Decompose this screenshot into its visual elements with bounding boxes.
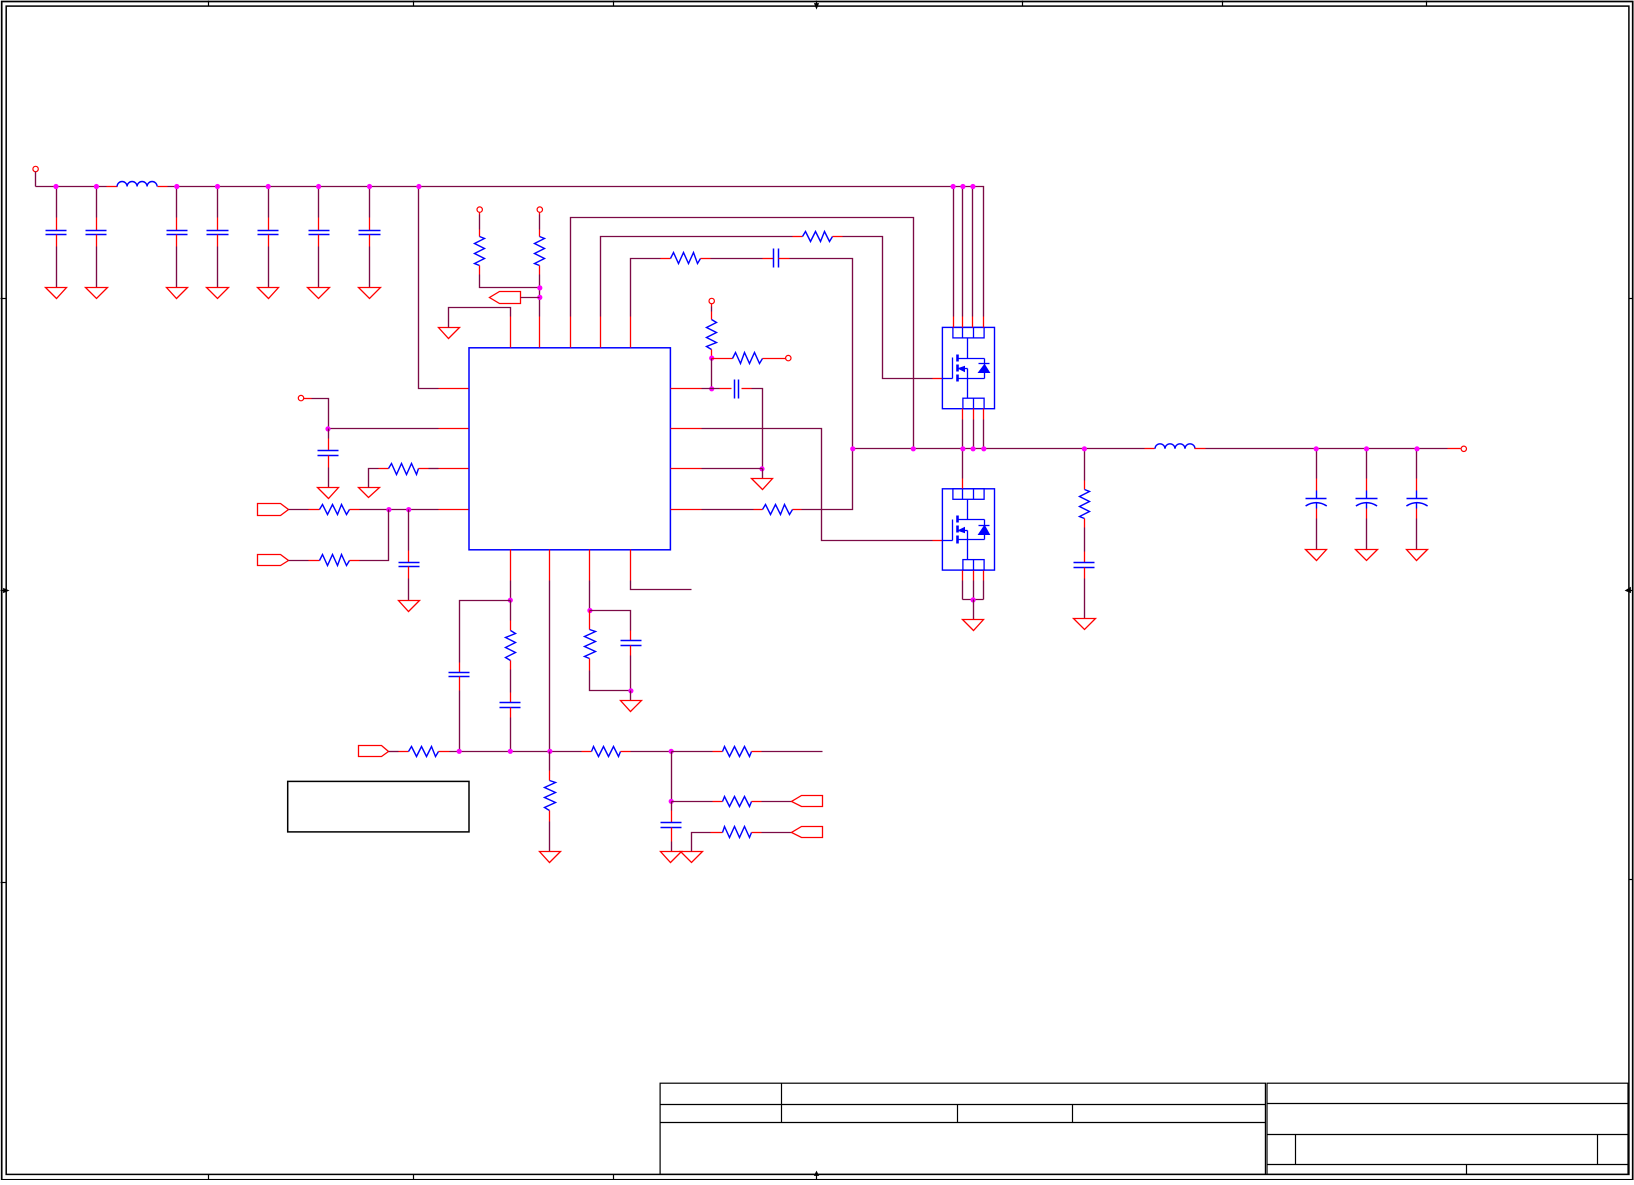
wire R11 to C12 — [1084, 528, 1086, 552]
node rail junction — [94, 184, 99, 189]
wire cap branch C7 — [369, 187, 371, 218]
inductor L1 — [107, 182, 168, 187]
wire R2 to node A — [539, 275, 541, 317]
resistor R9 — [707, 312, 717, 359]
wire node D down — [671, 752, 673, 802]
zone tick marks bottom — [209, 1172, 819, 1181]
wire node D right — [672, 751, 713, 753]
wire P3 to node — [521, 297, 540, 299]
ground C2 — [86, 288, 108, 299]
capacitor C14 polarized — [1356, 479, 1378, 519]
ground node C — [621, 701, 642, 712]
wire C9 to ground — [408, 579, 410, 601]
resistor R17 — [545, 771, 556, 822]
capacitor C16 — [500, 693, 521, 718]
wire R3 to Q1 gate — [843, 237, 933, 379]
pin Q2 gate stub — [933, 540, 943, 542]
pin Q1 gate stub — [933, 378, 943, 380]
wire C1 to ground — [56, 247, 58, 288]
ground C3 — [167, 288, 188, 299]
node rail junction — [367, 184, 372, 189]
node junction — [508, 598, 513, 603]
resistor R14 — [399, 747, 450, 757]
wire C16 to rail — [510, 718, 512, 752]
wire bus to ground — [973, 600, 975, 620]
U1 right pins — [671, 389, 702, 510]
wire VOUT rail — [1206, 448, 1448, 450]
U1 left pins — [439, 389, 469, 510]
wire Q2 source down — [983, 581, 985, 600]
wire Q1 source to SW — [973, 420, 975, 449]
ground C1 — [46, 288, 67, 299]
wire C18 to ground — [671, 842, 673, 852]
wire R12 to C16 — [510, 670, 512, 693]
node junction — [386, 507, 391, 512]
port P5 output — [792, 796, 823, 807]
wire C2 to ground — [96, 247, 98, 288]
wire node to C9 — [408, 510, 410, 551]
node SW junction — [1082, 446, 1087, 451]
node rail junction — [266, 184, 271, 189]
wire U1 pin top1 to ground — [449, 308, 511, 328]
ground C8 — [318, 488, 339, 499]
resistor R7 — [309, 555, 360, 566]
wire P4 to R14 — [389, 751, 399, 753]
capacitor C15 — [449, 663, 470, 691]
wire C17 to node C — [630, 656, 632, 691]
capacitor C3 — [167, 218, 188, 247]
terminal T1 VIN — [33, 166, 38, 186]
wire junction to C8 — [328, 429, 330, 439]
terminal T5 — [709, 298, 714, 306]
port P4 input — [359, 746, 389, 757]
pin Q1 source stub — [962, 409, 964, 420]
wire SW rail — [853, 448, 1145, 450]
node junction — [537, 295, 542, 300]
ground R17 — [540, 852, 561, 863]
wire rail to U1 EN — [419, 187, 439, 389]
wire C12 to ground — [1084, 579, 1086, 619]
wire R17 to ground — [549, 822, 551, 852]
ground C4 — [207, 288, 229, 299]
wire C11 to node B — [752, 389, 763, 469]
wire U1 top pin3 to SW — [571, 218, 914, 449]
resistor R10 — [712, 353, 786, 364]
zone tick marks top — [209, 1, 1427, 9]
node E junction — [669, 799, 674, 804]
node junction — [547, 749, 552, 754]
node rail junction — [960, 184, 965, 189]
wire T3 to R1 — [479, 215, 481, 230]
wire C10 to SW / sense — [790, 259, 853, 510]
wire U1 top pin5 to R4 — [631, 259, 661, 317]
port P1 input — [258, 504, 289, 516]
wire R16 stub end — [762, 751, 823, 753]
wire C15 to ground — [1416, 519, 1418, 550]
wire U1 bottom pin2 down — [549, 581, 551, 752]
ground C15 — [1407, 550, 1428, 561]
wire ground to R19 — [692, 833, 711, 852]
node rail junction — [416, 184, 421, 189]
node junction — [1314, 446, 1319, 451]
capacitor C18 — [661, 811, 682, 842]
wire T5 to R9 — [711, 307, 713, 312]
node rail junction — [53, 184, 58, 189]
wire node to R17 — [549, 752, 551, 771]
annotation box — [288, 781, 469, 832]
wire node to C15 branch — [460, 601, 511, 663]
wire Q2 source bus — [963, 599, 984, 601]
wire top rail — [168, 187, 984, 317]
wire U1 bottom pin1 down — [510, 581, 512, 601]
wire C4 to ground — [217, 247, 219, 288]
resistor R15 — [582, 747, 631, 757]
wire C7 to ground — [369, 247, 371, 288]
node rail junction — [316, 184, 321, 189]
node rail junction — [951, 184, 956, 189]
wire Q2 source down — [973, 581, 975, 600]
wire node B to ground — [762, 469, 764, 479]
wire C5 to ground — [268, 247, 270, 288]
node C junction — [628, 688, 633, 693]
terminal T6 — [786, 355, 791, 360]
node rail junction — [970, 184, 975, 189]
wire VOUT to C13 — [1316, 449, 1318, 479]
ground C6 — [308, 288, 330, 299]
node D junction — [669, 749, 674, 754]
node junction — [1364, 446, 1369, 451]
capacitor C6 — [309, 218, 330, 247]
wire rail to Q1 drain — [953, 187, 955, 317]
resistor R1 — [475, 230, 485, 275]
node junction — [709, 356, 714, 361]
zone tick marks right — [1626, 299, 1634, 880]
wire rail to Q1 drain — [972, 187, 974, 317]
wire ground to R5 — [369, 469, 379, 488]
wire to U1 left pin2 — [329, 428, 439, 430]
wire T4 to R2 — [539, 215, 541, 230]
pin Q2 source stub — [973, 571, 975, 581]
title block left table — [660, 1083, 1265, 1174]
wire R15 to node D — [631, 751, 672, 753]
ground R5 — [359, 488, 380, 498]
node rail junction — [215, 184, 220, 189]
wire node to C17 top — [590, 611, 631, 631]
capacitor C15 polarized — [1406, 479, 1427, 519]
pin Q2 source stub — [983, 571, 985, 581]
inductor L2 output — [1145, 444, 1206, 449]
terminal T3 — [477, 207, 482, 215]
node A junction — [537, 285, 542, 290]
resistor R4 — [661, 253, 711, 264]
capacitor C12 snubber — [1074, 552, 1095, 579]
resistor R12 — [506, 621, 516, 670]
wire R19 to port P6 — [762, 832, 792, 834]
capacitor C9 — [399, 551, 420, 579]
pin VOUT stub — [1448, 448, 1461, 450]
ground P6 branch — [681, 852, 703, 863]
wire Q2 source down — [962, 581, 964, 600]
pin Q1 drain stub — [983, 317, 985, 328]
wire cap branch C2 — [96, 187, 98, 218]
wire R6 to U1 pin4 — [360, 509, 439, 511]
capacitor C17 — [621, 631, 642, 656]
node SW junction — [981, 446, 986, 451]
wire C15 to rail — [459, 691, 461, 752]
op-amp U1 controller IC body — [469, 348, 670, 550]
wire node to R12 — [510, 601, 512, 621]
wire VOUT to C14 — [1366, 449, 1368, 479]
capacitor C2 — [86, 218, 107, 247]
transistor Q1 power MOSFET — [942, 327, 994, 408]
capacitor C1 — [46, 218, 67, 247]
title block right table — [1267, 1083, 1629, 1174]
wire U1 right pin3 to node B — [702, 468, 763, 470]
pin Q1 drain stub — [953, 317, 955, 328]
transistor Q2 power MOSFET — [942, 489, 994, 571]
port P3 output — [490, 292, 521, 304]
ground U1 top pin1 — [439, 328, 460, 339]
wire P2 to R7 — [289, 560, 309, 562]
pin Q1 source stub — [983, 409, 985, 420]
U1 top pins — [511, 317, 631, 348]
pin Q2 source stub — [962, 571, 964, 581]
node SW junction — [911, 446, 916, 451]
resistor R16 — [713, 747, 762, 757]
capacitor C13 polarized — [1306, 479, 1327, 519]
wire node to U1 right pin1 line — [711, 359, 713, 389]
node rail junction — [174, 184, 179, 189]
wire T2 to U1 pin — [312, 399, 329, 429]
ground C13 — [1306, 550, 1327, 561]
wire cap branch C3 — [176, 187, 178, 218]
wire U1 top pin4 to R3 — [601, 237, 793, 317]
terminal T2 — [298, 395, 311, 400]
terminal T4 — [537, 207, 542, 215]
wire node C to ground — [630, 691, 632, 701]
node junction — [1414, 446, 1419, 451]
ground node B — [752, 479, 773, 490]
resistor R13 — [585, 611, 596, 671]
resistor R18 — [713, 797, 762, 807]
wire cap branch C4 — [217, 187, 219, 218]
pin Q1 drain stub — [972, 317, 974, 328]
wire node E to C18 — [671, 802, 673, 811]
wire top rail left — [36, 186, 107, 188]
node B junction — [759, 466, 764, 471]
wire U1 right pin2 to Q2 gate — [702, 429, 933, 541]
wire C14 to ground — [1366, 519, 1368, 550]
port P6 output — [792, 827, 823, 838]
wire C6 to ground — [318, 247, 320, 288]
capacitor C7 — [359, 218, 381, 247]
capacitor C4 — [207, 218, 229, 247]
wire VOUT to C15 — [1416, 449, 1418, 479]
node junction — [457, 749, 462, 754]
ground C9 — [399, 601, 420, 612]
wire R8 to U1 right pin4 — [702, 509, 754, 511]
wire pin1 to C11 — [702, 388, 720, 390]
wire C13 to ground — [1316, 519, 1318, 550]
resistor R3 — [793, 232, 843, 242]
ground C18 — [661, 852, 682, 863]
zone tick marks left — [1, 299, 9, 883]
ground C12 — [1074, 619, 1096, 630]
resistor R8 — [754, 505, 802, 515]
node junction — [971, 597, 976, 602]
wire cap branch C5 — [268, 187, 270, 218]
wire R7 up to node — [360, 510, 389, 561]
pin Q1 source stub — [973, 409, 975, 420]
node junction — [406, 507, 411, 512]
pin Q1 drain stub — [962, 317, 964, 328]
wire R1 to node — [480, 275, 540, 288]
wire bottom rail — [450, 751, 582, 753]
ground C14 — [1356, 550, 1378, 561]
wire rail to Q1 drain — [962, 187, 964, 317]
ground C5 — [258, 288, 279, 299]
wire cap branch C1 — [56, 187, 58, 218]
node junction — [587, 608, 592, 613]
wire R13 to node C — [590, 671, 631, 691]
wire R18 to port P5 — [762, 801, 792, 803]
ground C7 — [359, 288, 381, 299]
wire SW to R11 — [1084, 449, 1086, 481]
wire C8 to ground — [328, 468, 330, 488]
wire R4 to C10 — [711, 258, 763, 260]
resistor R6 — [309, 505, 360, 515]
wire Q1 source to SW — [962, 420, 964, 449]
resistor R19 — [711, 827, 762, 838]
capacitor C10 — [763, 249, 790, 268]
node junction — [709, 386, 714, 391]
terminal T7 VOUT — [1461, 446, 1466, 451]
wire node E to R18 — [672, 801, 713, 803]
port P2 input — [258, 555, 289, 566]
capacitor C5 — [258, 218, 279, 247]
resistor R11 snubber — [1080, 481, 1090, 528]
wire U1 bottom pin4 stub — [631, 581, 692, 590]
capacitor C8 — [318, 439, 339, 468]
pin Q2 drain stub — [962, 479, 964, 489]
wire Q1 source to SW — [983, 420, 985, 449]
wire P1 to R6 — [289, 509, 309, 511]
node junction — [508, 749, 513, 754]
node SW junction — [971, 446, 976, 451]
wire cap branch C6 — [318, 187, 320, 218]
node junction — [325, 426, 330, 431]
wire SW to Q2 drain — [962, 449, 964, 479]
node SW junction — [850, 446, 855, 451]
wire U1 bottom pin3 down — [589, 581, 591, 611]
U1 bottom pins — [511, 550, 631, 581]
wire C3 to ground — [176, 247, 178, 288]
resistor R2 — [535, 230, 545, 275]
capacitor C11 — [720, 380, 752, 399]
wire R5 to U1 pin3 — [429, 468, 439, 470]
resistor R5 — [379, 464, 429, 475]
ground Q2 source — [963, 620, 984, 631]
node SW junction — [960, 446, 965, 451]
